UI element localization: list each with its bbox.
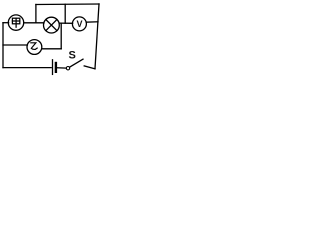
svg-text:S: S [69,50,76,62]
meter U1 jia circle [8,15,23,30]
wire lamp to voltmeter [59,22,72,24]
wire to meter jia [3,22,9,24]
wire left rail [2,23,4,68]
wire jia to lamp [24,22,44,24]
battery B1 short thick plate [55,63,57,72]
wire top rail [36,3,99,6]
label yi character [31,43,37,50]
svg-text:V: V [76,19,82,29]
wire right rail [95,4,99,69]
lamp L1 circle [44,17,60,33]
wire yi branch horizontal [42,48,61,50]
switch S lever [70,59,83,67]
wire junction vertical at node A [35,5,37,23]
wire node B down to yi branch [60,23,62,49]
label jia character [12,18,19,27]
meter U2 yi circle [27,40,42,55]
wire battery left [3,67,51,69]
wire node C up to top rail [64,4,66,23]
switch S pivot circle [66,67,69,70]
voltmeter V circle [72,17,86,31]
battery B1 long plate [52,60,54,75]
lamp L1 cross [46,20,57,31]
wire left rail to yi [3,44,27,46]
wire voltmeter to right rail [86,21,98,23]
wire battery to switch [57,67,66,69]
wire switch right [84,66,95,69]
